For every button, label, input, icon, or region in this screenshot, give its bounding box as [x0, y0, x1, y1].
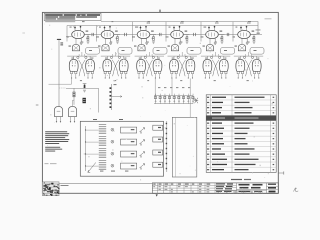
wire: feeds to cans: [59, 100, 75, 107]
wire: arrow exit bottom left of relay box: [88, 163, 96, 173]
approval stamp (dense block, bottom left): [42, 182, 59, 196]
wire: T4 drop to harness box: [189, 78, 191, 117]
lamp block L4: [153, 162, 163, 167]
transformer/resonator pair T5 (tall oval pair): [201, 54, 230, 79]
contact bank S4: [86, 161, 114, 170]
wire: plate lead down to T5: [215, 52, 217, 56]
tube V2A indicator (dome below): [98, 39, 109, 51]
tube V3 (dual triode, top row): [137, 22, 154, 38]
wire: interstage coupling with capacitor: [183, 33, 205, 36]
tube V6 (dual triode, top row): [238, 22, 255, 38]
notes box (general notes, top left): [44, 13, 101, 22]
scan speckle: [44, 15, 273, 189]
drawing sheet border: [42, 12, 278, 193]
wire: interstage coupling with capacitor: [218, 33, 237, 36]
capacitor / ground under V5: [214, 38, 217, 44]
capacitor / ground under V3: [145, 38, 148, 44]
lamp block L3: [153, 150, 163, 155]
capacitor / ground under V2: [109, 38, 112, 44]
capacitor / ground under V6: [246, 38, 249, 44]
pencil note (faint): [45, 162, 57, 165]
value labels (greeked): [67, 21, 260, 81]
wire: T3/T4 drops to delay line: [155, 78, 172, 95]
tube V6A indicator (dome below): [235, 39, 246, 51]
labels inside relay box bottom: [100, 170, 128, 173]
resistor / cathode network of V3: [150, 35, 156, 44]
capacitor / ground under V4: [179, 38, 182, 44]
resistor R20: [73, 88, 75, 105]
tube V5 (dual triode, top row): [206, 22, 223, 38]
relay coil K2: [121, 139, 137, 145]
wire: plate lead down to T3: [148, 52, 150, 56]
transformer/resonator pair T3 (tall oval pair): [135, 54, 164, 79]
wire: plate lead down to T1: [81, 52, 83, 56]
scale strip: [215, 191, 267, 194]
tick at right border: [278, 171, 284, 174]
grid-leak terminal at input: [57, 39, 63, 45]
tube V3A indicator (dome below): [134, 39, 145, 51]
blemish mark: [22, 32, 25, 35]
contact arrow of K3: [140, 152, 145, 158]
contact arrow of K1: [140, 128, 145, 134]
resistor / cathode network of V6: [250, 35, 256, 44]
wire: T1 return rail: [49, 78, 72, 84]
transformer/resonator pair T6 (tall oval pair): [234, 54, 263, 79]
note below table: LAST USED: [231, 179, 251, 180]
transformer/resonator pair T4 (tall oval pair): [168, 54, 197, 79]
centre tick (top margin): [159, 10, 160, 13]
note paragraph (left): [45, 131, 69, 151]
contact bank S2: [86, 137, 114, 146]
contact arrow of K4: [140, 164, 145, 170]
wire: shield-box top rail: [67, 25, 258, 27]
wire: dashed link: [59, 87, 66, 89]
tube V4A indicator (dome below): [168, 39, 179, 51]
wire: internal bus of relay box: [85, 126, 86, 171]
wire: B+ supply bus (upper): [101, 22, 258, 35]
capacitor / ground under V1: [80, 38, 83, 44]
title block drawing title: [237, 183, 267, 193]
terminal strip TB1 (ladder): [110, 84, 123, 110]
relay box K1-K4 (outline): [80, 121, 163, 176]
centre tick (left margin): [36, 104, 39, 107]
resistor / cathode network of V1: [84, 35, 90, 44]
wire: plate lead down to T4: [181, 52, 183, 56]
capacitor can CE1: [55, 106, 63, 122]
switch box S (rounded rect between stages): [153, 48, 167, 55]
transformer/resonator pair T1 (tall oval pair): [67, 54, 96, 79]
capacitor C10 (polarised): [83, 84, 87, 89]
lamp block L2: [153, 137, 163, 142]
handwritten sheet mark 1C: [294, 188, 299, 192]
labels above delay line: [158, 86, 190, 89]
highlighted table row: [206, 115, 276, 120]
resistor / cathode network of V5: [218, 35, 224, 44]
wire: V6 output: [250, 30, 262, 35]
delay line DL1 (ladder of capacitors): [154, 94, 198, 104]
relay coil K3: [121, 151, 137, 157]
wire: interstage coupling with capacitor: [114, 33, 137, 36]
parts list table: [206, 95, 276, 173]
switch box S (rounded rect between stages): [187, 48, 201, 55]
title block outline: [152, 183, 278, 193]
lamp block L1: [153, 125, 163, 130]
wire: plate lead down to T2: [115, 52, 117, 56]
wire: interstage coupling with capacitor: [84, 33, 101, 36]
revision strip (long empty box): [59, 184, 152, 194]
capacitor C11 (electrolytic, dark): [83, 98, 86, 103]
wire: input lead to V1: [66, 36, 72, 38]
relay coil K4: [121, 163, 137, 169]
tube V4 (dual triode, top row): [171, 22, 188, 38]
connector J1 (tick strip): [166, 121, 167, 172]
contact arrow of K2: [140, 140, 145, 146]
wire: plate lead down to T6: [248, 52, 250, 56]
switch box S (rounded rect between stages): [250, 48, 264, 55]
table row texts: [207, 97, 274, 171]
wire: interstage coupling with capacitor: [150, 33, 171, 36]
ground (bias rail): [83, 87, 86, 92]
switch box S (rounded rect between stages): [221, 48, 235, 55]
transformer/resonator pair T2 (tall oval pair): [101, 54, 130, 79]
tube V5A indicator (dome below): [203, 39, 214, 51]
wire: shield walls: [67, 22, 233, 42]
arrow mark below border: [156, 194, 158, 196]
contact bank S1: [86, 125, 114, 134]
tube V1 (dual triode, top row): [72, 26, 89, 39]
title block number cell: [267, 184, 279, 193]
capacitor can CE2: [69, 106, 77, 122]
tube V1A indicator (dome below): [69, 39, 80, 51]
wire: bias rail: [66, 87, 99, 89]
harness box (tall rectangle): [172, 117, 197, 177]
faint pencil note top right: [265, 18, 272, 19]
title block approvals column: [215, 183, 237, 193]
contact bank S3: [86, 149, 114, 158]
relay coil K1: [121, 127, 137, 133]
switch box S (rounded rect between stages): [86, 48, 100, 55]
title block left grid: [152, 183, 215, 193]
wire: drop to switch bank: [98, 88, 100, 112]
resistor / cathode network of V4: [183, 35, 189, 44]
wire: vertical feeder at left: [58, 40, 60, 107]
resistor / cathode network of V2: [114, 35, 120, 44]
tube V2 (dual triode, top row): [101, 26, 118, 39]
label above relay box: [93, 119, 123, 120]
switch box S (rounded rect between stages): [118, 48, 132, 55]
